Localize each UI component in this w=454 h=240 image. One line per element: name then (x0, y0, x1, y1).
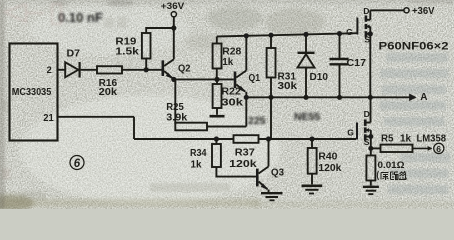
transistor Q3 (256, 169, 259, 187)
node R34 top (214, 136, 219, 141)
resistor R22 (216, 79, 218, 84)
label kangtongsi (constantan wire) in parens (377, 171, 406, 180)
node R19/+36V (171, 25, 176, 30)
node Q1 collector/rail (244, 33, 249, 38)
svg-text:Q2: Q2 (178, 63, 191, 74)
wire Q1 emitter to A bus (245, 92, 247, 97)
ground R22 (216, 108, 218, 115)
svg-text:20k: 20k (99, 87, 118, 98)
wire R16 to Q2 base (122, 69, 162, 71)
svg-text:6: 6 (436, 144, 441, 154)
svg-text:120k: 120k (229, 159, 257, 170)
svg-text:225: 225 (248, 115, 266, 127)
char kang (381, 173, 389, 181)
resistor R37 (234, 135, 259, 143)
svg-text:MC33035: MC33035 (12, 87, 52, 98)
ground Q3 (261, 192, 283, 194)
ground shunt (363, 186, 379, 188)
svg-text:C17: C17 (347, 58, 367, 69)
wire A bus down to Q3 collector bus (270, 97, 272, 139)
pin-6 circle LM358 (434, 143, 444, 153)
svg-text:D7: D7 (67, 49, 81, 60)
svg-text:0.10 nF: 0.10 nF (58, 10, 103, 25)
resistor R19 (142, 33, 151, 59)
wire D7 to R16 (81, 69, 97, 71)
resistor R34 (215, 139, 217, 144)
svg-text:R25: R25 (166, 102, 184, 113)
mosfet top D G S (346, 6, 370, 147)
svg-text:+36V: +36V (412, 6, 435, 17)
svg-text:NE55: NE55 (294, 111, 320, 123)
wire Q2 emitter row to Q1 base (174, 78, 234, 80)
svg-text:0.01Ω: 0.01Ω (378, 160, 405, 170)
svg-text:P60NF06×2: P60NF06×2 (379, 41, 449, 53)
node R22 top (214, 77, 219, 82)
wire R5 to LM358 pin6 arrow (413, 147, 432, 149)
+36V terminal (left) (171, 12, 176, 17)
svg-text:30k: 30k (278, 81, 298, 92)
figure number 6 circle (70, 156, 84, 170)
svg-text:Q3: Q3 (271, 168, 284, 179)
transistor Q2 (162, 60, 165, 76)
svg-text:Q1: Q1 (249, 73, 261, 84)
svg-text:LM358: LM358 (417, 134, 447, 145)
svg-text:2: 2 (47, 65, 52, 76)
diode D10 (305, 34, 307, 52)
wire pin2 to D7 (58, 69, 66, 71)
svg-text:D: D (364, 109, 370, 119)
svg-text:D: D (363, 6, 369, 16)
resistor R-0.01ohm (shunt) (366, 156, 375, 181)
resistor R40 (311, 139, 313, 148)
capacitor C17 (339, 34, 341, 58)
wire Q2 emitter down to R25 (174, 79, 176, 124)
svg-text:R40: R40 (318, 152, 337, 163)
IC U-MC33035 box (10, 44, 58, 141)
svg-text:R22: R22 (221, 86, 241, 97)
svg-text:1k: 1k (400, 133, 411, 144)
svg-text:1k: 1k (222, 57, 233, 68)
+36V terminal (right) (404, 8, 409, 13)
svg-text:R37: R37 (235, 148, 255, 159)
node R40 top (309, 136, 314, 141)
resistor R31 (270, 35, 272, 48)
svg-text:D10: D10 (310, 72, 329, 83)
node R19-base junction (144, 67, 149, 72)
svg-text:1.5k: 1.5k (115, 47, 139, 58)
wire source to R5 (371, 147, 381, 149)
A bus wire with arrow (246, 96, 415, 98)
svg-text:21: 21 (43, 113, 54, 124)
transistor Q1 (234, 72, 237, 89)
resistor R28 (216, 37, 218, 44)
svg-text:+36V: +36V (161, 1, 185, 11)
svg-text:30k: 30k (221, 98, 243, 109)
resistor R16 (97, 66, 122, 73)
char si (399, 172, 407, 180)
svg-text:R28: R28 (222, 46, 241, 57)
svg-text:6: 6 (74, 158, 81, 170)
resistor R25 (175, 123, 207, 131)
mosfet VT-bottom P60NF06 (356, 97, 373, 155)
char tong (391, 172, 399, 180)
svg-text:3.9k: 3.9k (166, 112, 187, 123)
wire R25 right to A-node vertical (207, 97, 246, 126)
svg-text:S: S (364, 35, 370, 45)
diode D7 (65, 62, 78, 77)
ground R40 (302, 185, 323, 188)
svg-text:1k: 1k (191, 160, 202, 171)
svg-text:A: A (420, 92, 427, 103)
svg-text:R34: R34 (190, 148, 207, 159)
resistor R5 (381, 145, 413, 152)
svg-text:120k: 120k (318, 163, 341, 174)
wire +36V down to Q2 collector (173, 17, 175, 60)
wire R19 top to +36V rail (146, 28, 174, 70)
node Q3 collector (266, 136, 271, 141)
gate bus (bottom) from pin21 (58, 117, 357, 139)
svg-text:S: S (364, 137, 370, 147)
node Q2 emitter (171, 77, 176, 82)
svg-text:R5: R5 (381, 133, 394, 144)
gate drive rail (top) (217, 33, 357, 36)
wire Q1 collector up to gate rail (245, 36, 247, 71)
wire R34 to Q3 base (216, 167, 256, 177)
svg-text:G: G (347, 128, 354, 138)
svg-text:G: G (346, 27, 353, 37)
mosfet VT-top P60NF06 (356, 10, 403, 97)
